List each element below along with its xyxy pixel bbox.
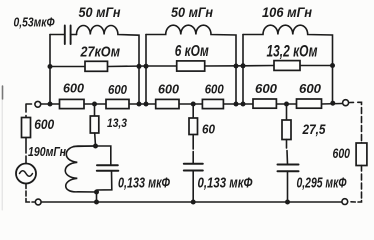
wire: section2 left vertical	[145, 35, 147, 105]
wire: bottom rail	[41, 201, 342, 203]
wire: branch2 mid	[192, 135, 194, 164]
capacitor C1 0,53мкФ	[50, 34, 65, 36]
node input bottom terminal	[35, 199, 41, 205]
resistor R6 27,5	[282, 120, 291, 140]
inductor L1 50мГн	[77, 25, 140, 104]
svg-text:600: 600	[63, 80, 85, 95]
resistor 600 S2b	[202, 99, 223, 108]
inductor L3 106мГн	[243, 25, 333, 103]
wire: generator branch dashes top	[26, 104, 32, 118]
svg-text:0,133 мкФ: 0,133 мкФ	[118, 176, 171, 192]
node dot main rail x139	[137, 102, 142, 107]
svg-text:0,133 мкФ: 0,133 мкФ	[198, 176, 254, 192]
inductor L4 190мГн coil	[65, 146, 96, 192]
node dot mid rail x236	[234, 64, 239, 69]
capacitor C3 0,133мкФ plates	[184, 164, 203, 171]
node dot bottom rail x96.5	[94, 200, 99, 205]
wire: branch3 mid	[287, 140, 288, 165]
node dot mid rail x50	[48, 64, 53, 69]
svg-text:50 мГн: 50 мГн	[171, 5, 213, 20]
resistor R2 6кОм	[177, 61, 205, 71]
scan artifact left edge	[2, 86, 4, 99]
node output bottom terminal	[342, 199, 348, 205]
resistor R5 60	[189, 118, 198, 135]
svg-text:27,5: 27,5	[302, 122, 326, 137]
wire: branch1 to tank node	[94, 133, 97, 146]
wire: shunt branch2 top	[192, 104, 194, 118]
wire: generator branch dashes bottom	[26, 184, 35, 203]
inductor L2 50мГн	[146, 25, 236, 104]
wire: section2 mid rail	[146, 65, 243, 67]
svg-text:13,2 кОм: 13,2 кОм	[267, 42, 318, 60]
resistor 600 S3b	[297, 99, 322, 108]
wire: output dashes top	[350, 102, 362, 143]
svg-text:600: 600	[255, 81, 278, 96]
node dot main rail x243	[241, 102, 246, 107]
resistor R1 27кОм	[85, 61, 108, 71]
node dot mid rail x146	[144, 64, 149, 69]
node dot main rail x333	[330, 101, 335, 106]
svg-text:600: 600	[108, 82, 128, 97]
node dot main rail x50	[48, 102, 53, 107]
node dot bottom rail x287.5	[285, 200, 290, 205]
node dot main rail x146	[144, 102, 149, 107]
svg-text:13,3: 13,3	[107, 118, 128, 130]
wire: branch2 bottom	[192, 171, 194, 203]
resistor 600 S1b	[106, 99, 129, 108]
wire: shunt branch1 top	[94, 104, 96, 116]
node dot mid rail x243	[241, 63, 246, 68]
svg-text:0,53мкФ: 0,53мкФ	[14, 16, 55, 30]
node dot mid rail x332.5	[330, 63, 335, 68]
svg-text:600: 600	[299, 81, 322, 96]
svg-text:600: 600	[205, 81, 225, 96]
svg-text:0,295 мкФ: 0,295 мкФ	[297, 176, 347, 192]
node dot main rail x286.5	[284, 102, 289, 107]
wire: tank top tee	[74, 146, 111, 164]
svg-text:600: 600	[34, 117, 54, 132]
resistor R 600 (generator)	[22, 118, 31, 138]
node input top terminal	[35, 101, 41, 107]
svg-text:190мГн: 190мГн	[28, 144, 66, 159]
wire: section1 left vertical	[49, 35, 51, 105]
resistor 600 S3a	[253, 99, 276, 108]
resistor 600 S1a	[60, 99, 85, 108]
node dot main rail x236	[234, 102, 239, 107]
wire: main rail section2	[146, 103, 243, 105]
resistor R3 13,2кОм	[274, 61, 300, 71]
svg-text:27кОм: 27кОм	[80, 44, 120, 61]
capacitor C4 0,295мкФ plates	[278, 165, 299, 172]
wire: generator branch middle	[25, 138, 27, 164]
wire: section3 left vertical	[242, 35, 244, 105]
node dot bottom rail x193	[191, 200, 196, 205]
resistor R7 600 (load)	[356, 143, 367, 166]
resistor 600 S2a	[156, 99, 179, 108]
wire: branch3 bottom	[287, 171, 289, 202]
wire: cap C2 bottom	[97, 171, 112, 202]
wire: output dashes bottom	[351, 166, 362, 203]
wire: section3 mid rail	[243, 65, 333, 67]
node dot tank bottom	[94, 190, 99, 195]
svg-text:600: 600	[333, 146, 351, 161]
svg-text:106 мГн: 106 мГн	[262, 5, 312, 20]
svg-text:600: 600	[158, 81, 180, 96]
svg-text:50 мГн: 50 мГн	[79, 5, 121, 20]
wire: shunt branch3 top	[286, 104, 288, 120]
generator tilde	[20, 171, 33, 177]
svg-text:6 кОм: 6 кОм	[175, 43, 209, 60]
wire: main rail section1	[41, 103, 146, 105]
node dot mid rail x139	[137, 64, 142, 69]
generator G1 circle	[16, 164, 36, 184]
svg-text:60: 60	[202, 121, 216, 136]
node dot tank top	[93, 144, 98, 149]
node dot main rail x94.5	[92, 102, 97, 107]
wire: section1 mid rail	[50, 65, 146, 68]
resistor R4 13,3	[90, 116, 99, 133]
node dot main rail x193	[191, 102, 196, 107]
wire: main rail section3	[243, 103, 342, 106]
capacitor C2 0,133мкФ plates	[97, 165, 119, 171]
node output top terminal	[343, 100, 349, 106]
